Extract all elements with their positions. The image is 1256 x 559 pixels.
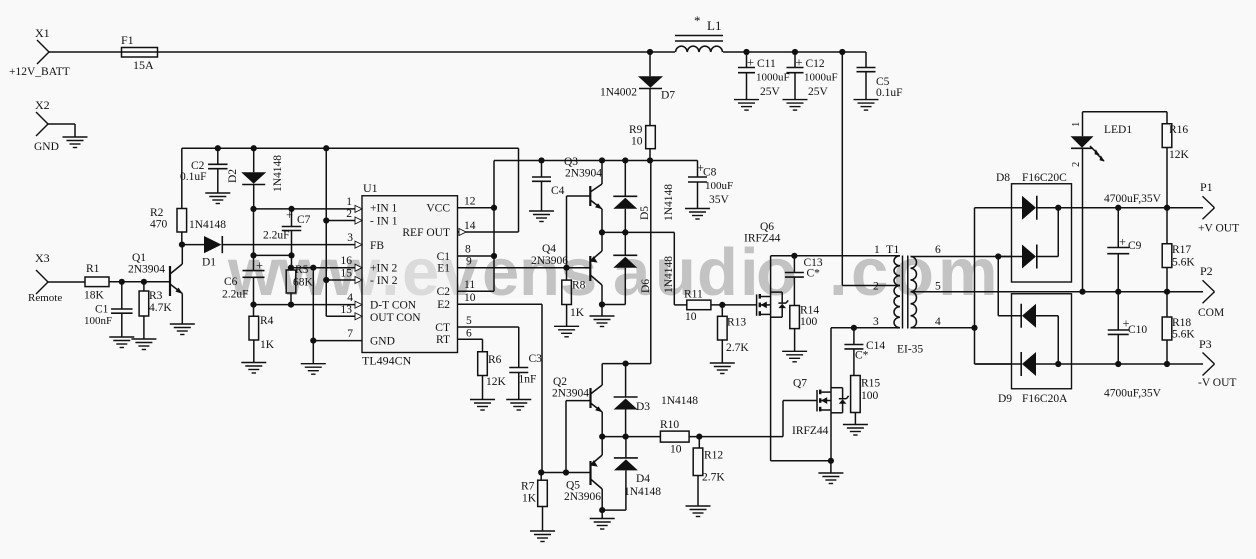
svg-text:F1: F1 [121, 33, 134, 47]
svg-text:2: 2 [346, 208, 352, 220]
svg-text:10: 10 [685, 311, 697, 323]
svg-text:C10: C10 [1128, 324, 1147, 336]
svg-text:2: 2 [1071, 162, 1082, 167]
svg-text:IRFZ44: IRFZ44 [744, 233, 781, 245]
svg-text:FB: FB [370, 240, 384, 252]
svg-text:5.6K: 5.6K [1172, 329, 1195, 341]
svg-text:470: 470 [150, 219, 168, 231]
svg-text:IRFZ44: IRFZ44 [792, 425, 829, 437]
svg-text:+IN 1: +IN 1 [370, 203, 397, 215]
svg-text:7: 7 [347, 328, 353, 340]
svg-text:2.2uF: 2.2uF [263, 230, 290, 242]
svg-text:1: 1 [874, 244, 880, 256]
svg-text:12K: 12K [486, 376, 507, 388]
svg-text:1000uF: 1000uF [804, 72, 838, 84]
svg-text:1K: 1K [260, 339, 275, 351]
svg-text:18K: 18K [84, 290, 105, 302]
svg-text:C6: C6 [224, 276, 238, 288]
svg-text:2.7K: 2.7K [702, 472, 725, 484]
svg-text:D8: D8 [996, 172, 1010, 184]
svg-text:R1: R1 [86, 263, 100, 275]
svg-text:13: 13 [341, 304, 353, 316]
svg-text:1N4148: 1N4148 [272, 155, 284, 192]
svg-text:1K: 1K [570, 307, 585, 319]
svg-text:100: 100 [861, 390, 879, 402]
svg-text:E1: E1 [437, 263, 450, 275]
svg-text:C1: C1 [437, 251, 451, 263]
svg-text:8: 8 [465, 244, 471, 256]
svg-text:10: 10 [670, 444, 682, 456]
svg-text:P3: P3 [1199, 337, 1212, 351]
svg-text:6: 6 [466, 328, 472, 340]
svg-text:D1: D1 [202, 257, 216, 269]
svg-text:R4: R4 [260, 315, 274, 327]
svg-text:E2: E2 [437, 299, 450, 311]
svg-text:5: 5 [935, 281, 941, 293]
svg-text:D2: D2 [227, 169, 239, 183]
svg-text:R5: R5 [295, 264, 309, 276]
svg-text:GND: GND [370, 336, 395, 348]
svg-text:CT: CT [435, 322, 450, 334]
svg-text:C1: C1 [95, 304, 109, 316]
svg-text:U1: U1 [363, 181, 378, 195]
svg-text:10: 10 [464, 292, 476, 304]
svg-text:LED1: LED1 [1104, 124, 1132, 136]
svg-text:68K: 68K [293, 277, 314, 289]
svg-text:OUT CON: OUT CON [370, 312, 421, 324]
svg-text:C*: C* [855, 350, 869, 362]
svg-text:D3: D3 [636, 401, 650, 413]
svg-text:1000uF: 1000uF [756, 72, 790, 84]
svg-text:100nF: 100nF [84, 315, 112, 327]
svg-text:REF OUT: REF OUT [402, 227, 450, 239]
svg-text:T1: T1 [886, 242, 899, 256]
svg-text:16: 16 [341, 255, 353, 267]
svg-text:C7: C7 [297, 214, 311, 226]
svg-text:R14: R14 [800, 305, 819, 317]
svg-text:+V OUT: +V OUT [1198, 223, 1239, 235]
svg-text:Q5: Q5 [566, 480, 580, 492]
svg-text:2.2uF: 2.2uF [222, 289, 249, 301]
svg-text:1N4148: 1N4148 [189, 219, 226, 231]
svg-text:1N4148: 1N4148 [624, 486, 661, 498]
svg-text:Q2: Q2 [553, 376, 567, 388]
svg-text:4: 4 [935, 316, 941, 328]
svg-text:6: 6 [935, 244, 941, 256]
svg-text:2N3904: 2N3904 [128, 264, 165, 276]
svg-text:2N3904: 2N3904 [565, 168, 602, 180]
svg-text:*: * [694, 13, 701, 28]
svg-text:+: + [256, 259, 263, 273]
svg-text:R9: R9 [629, 124, 643, 136]
svg-text:RT: RT [436, 334, 450, 346]
svg-text:2N3906: 2N3906 [531, 255, 568, 267]
svg-text:D9: D9 [998, 393, 1012, 405]
svg-text:R16: R16 [1169, 124, 1188, 136]
svg-text:- IN 1: - IN 1 [370, 216, 398, 228]
svg-text:25V: 25V [760, 86, 781, 98]
svg-text:COM: COM [1198, 307, 1224, 319]
svg-text:+IN 2: +IN 2 [370, 263, 397, 275]
svg-text:25V: 25V [808, 86, 829, 98]
svg-text:L1: L1 [707, 18, 721, 33]
svg-text:C4: C4 [551, 185, 565, 197]
svg-text:0.1uF: 0.1uF [876, 87, 903, 99]
svg-text:X1: X1 [35, 26, 50, 40]
svg-text:12K: 12K [1169, 149, 1190, 161]
svg-text:R18: R18 [1172, 317, 1191, 329]
svg-text:9: 9 [466, 256, 472, 268]
svg-text:1nF: 1nF [519, 374, 537, 386]
svg-text:5: 5 [466, 315, 472, 327]
svg-text:R17: R17 [1172, 244, 1191, 256]
svg-text:15A: 15A [133, 58, 154, 72]
svg-text:11: 11 [464, 279, 475, 291]
svg-text:R6: R6 [488, 354, 502, 366]
svg-text:EI-35: EI-35 [897, 344, 923, 356]
svg-text:5.6K: 5.6K [1172, 257, 1195, 269]
svg-text:1N4148: 1N4148 [663, 256, 675, 293]
svg-text:R3: R3 [149, 290, 163, 302]
svg-text:R11: R11 [684, 289, 703, 301]
svg-text:+: + [286, 208, 293, 222]
svg-text:VCC: VCC [426, 203, 450, 215]
svg-text:P1: P1 [1200, 180, 1213, 194]
svg-text:1K: 1K [522, 493, 537, 505]
svg-text:C12: C12 [806, 58, 825, 70]
svg-text:F16C20C: F16C20C [1022, 172, 1067, 184]
svg-text:- IN 2: - IN 2 [370, 275, 398, 287]
svg-text:R2: R2 [150, 207, 164, 219]
svg-text:Remote: Remote [28, 292, 62, 304]
svg-text:1N4002: 1N4002 [600, 87, 637, 99]
svg-text:D5: D5 [639, 206, 651, 220]
svg-text:2.7K: 2.7K [726, 342, 749, 354]
svg-text:R15: R15 [861, 378, 880, 390]
svg-text:15: 15 [341, 268, 353, 280]
svg-text:12: 12 [464, 196, 476, 208]
svg-text:+: + [1119, 235, 1126, 249]
svg-text:3: 3 [873, 316, 879, 328]
svg-text:1N4148: 1N4148 [663, 184, 675, 221]
svg-text:P2: P2 [1200, 264, 1213, 278]
svg-text:2: 2 [873, 281, 879, 293]
svg-text:2N3904: 2N3904 [552, 388, 589, 400]
svg-text:R10: R10 [660, 419, 679, 431]
svg-text:0.1uF: 0.1uF [180, 171, 207, 183]
svg-text:Q6: Q6 [760, 221, 774, 233]
svg-text:Q3: Q3 [564, 156, 578, 168]
svg-text:C8: C8 [703, 167, 717, 179]
svg-text:1: 1 [1071, 122, 1082, 127]
svg-text:GND: GND [34, 141, 59, 153]
svg-text:C*: C* [807, 268, 821, 280]
svg-text:X3: X3 [35, 251, 50, 265]
svg-text:R8: R8 [572, 280, 586, 292]
svg-text:+: + [796, 56, 803, 70]
svg-text:100uF: 100uF [705, 180, 733, 192]
svg-text:D4: D4 [636, 473, 650, 485]
svg-text:4: 4 [347, 292, 353, 304]
svg-text:D-T CON: D-T CON [370, 300, 417, 312]
svg-text:R12: R12 [704, 450, 723, 462]
svg-text:14: 14 [464, 220, 476, 232]
svg-text:C11: C11 [757, 58, 776, 70]
svg-text:4.7K: 4.7K [149, 302, 172, 314]
svg-text:+12V_BATT: +12V_BATT [9, 66, 70, 78]
svg-text:D7: D7 [661, 90, 675, 102]
svg-text:R7: R7 [521, 481, 535, 493]
svg-text:10: 10 [631, 136, 643, 148]
svg-text:-V OUT: -V OUT [1198, 377, 1236, 389]
svg-text:35V: 35V [709, 194, 730, 206]
svg-text:TL494CN: TL494CN [362, 354, 412, 368]
svg-text:C9: C9 [1128, 240, 1142, 252]
svg-text:C14: C14 [866, 340, 885, 352]
svg-text:+: + [747, 56, 754, 70]
svg-text:C2: C2 [437, 286, 451, 298]
svg-text:F16C20A: F16C20A [1022, 393, 1068, 405]
svg-text:4700uF,35V: 4700uF,35V [1104, 193, 1162, 205]
svg-text:Q1: Q1 [132, 252, 146, 264]
svg-text:2N3906: 2N3906 [564, 491, 601, 503]
svg-text:X2: X2 [35, 98, 50, 112]
svg-text:4700uF,35V: 4700uF,35V [1104, 388, 1162, 400]
svg-text:1: 1 [346, 196, 352, 208]
svg-text:C3: C3 [529, 353, 543, 365]
svg-text:3: 3 [347, 232, 353, 244]
svg-text:Q7: Q7 [793, 378, 807, 390]
svg-text:R13: R13 [727, 317, 746, 329]
svg-text:Q4: Q4 [542, 243, 556, 255]
svg-text:100: 100 [800, 316, 818, 328]
svg-text:1N4148: 1N4148 [661, 395, 698, 407]
